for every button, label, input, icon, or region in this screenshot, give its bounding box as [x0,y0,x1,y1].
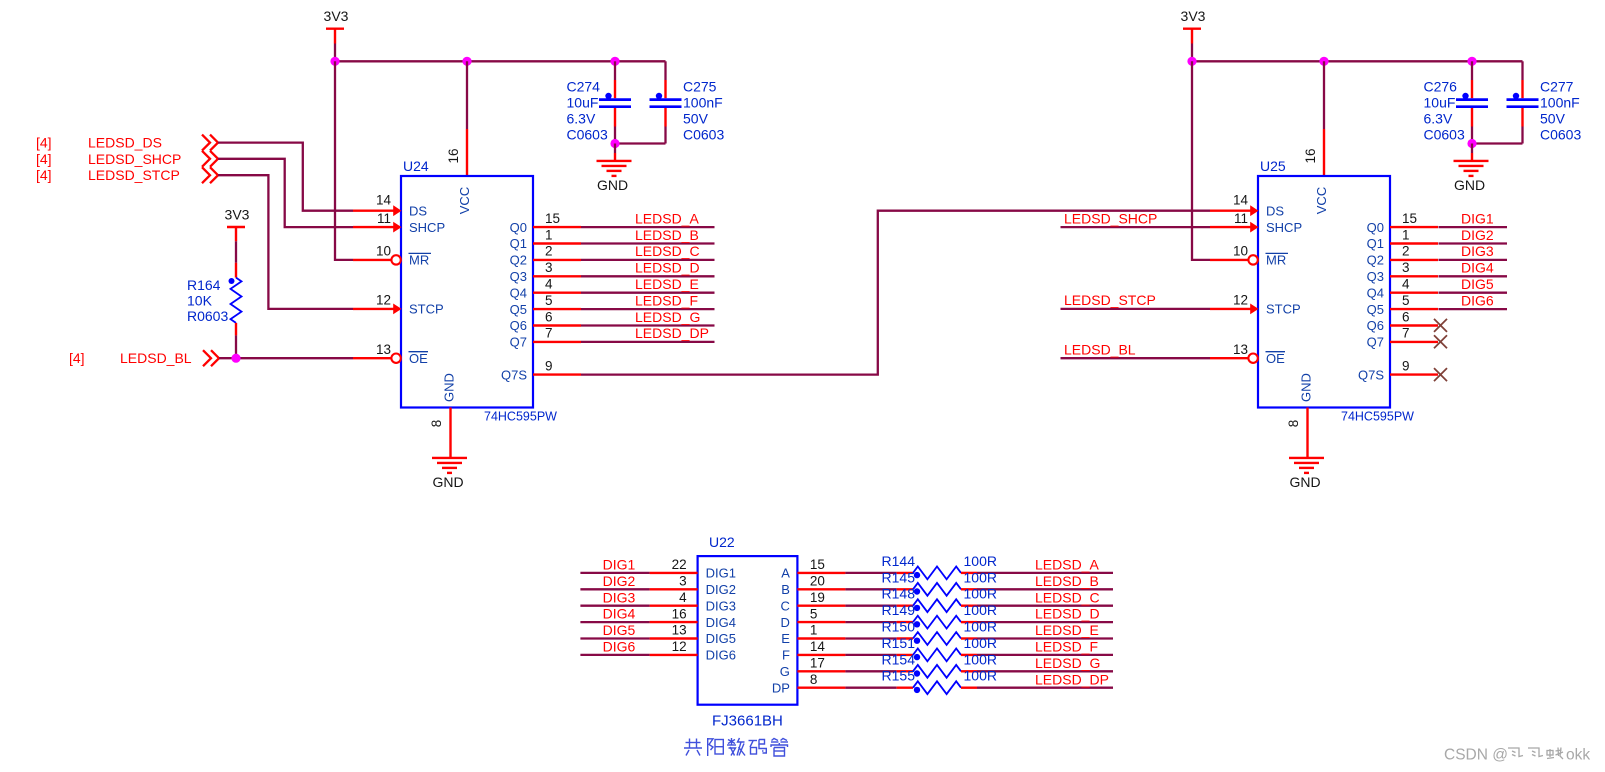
svg-text:R149: R149 [882,602,916,618]
ground GND below C274/C275 [597,161,632,193]
svg-text:1: 1 [545,227,553,242]
svg-text:MR: MR [1266,253,1286,268]
svg-text:C0603: C0603 [567,127,608,143]
pin 10 MR (active low) of U24 [353,244,431,268]
IC U22 FJ3661BH body [698,534,798,730]
svg-text:DIG4: DIG4 [1461,260,1494,276]
pin 15 Q0 of U25 [1367,211,1438,235]
wire LEDSD_STCP to U24 [218,175,353,309]
svg-text:LEDSD_SHCP: LEDSD_SHCP [1064,210,1157,226]
svg-text:SHCP: SHCP [1266,220,1302,235]
power symbol 3V3 above U25 [1181,8,1206,61]
svg-text:8: 8 [429,420,444,428]
svg-text:LEDSD_STCP: LEDSD_STCP [88,167,180,183]
svg-text:DIG2: DIG2 [1461,227,1494,243]
svg-text:10: 10 [376,244,391,259]
svg-text:74HC595PW: 74HC595PW [484,410,557,424]
svg-text:9: 9 [545,358,553,373]
pin 15 segment A of U22 [781,557,845,581]
pin 6 Q6 of U25 [1367,309,1438,333]
wire bottom of C277 to bottom of C276 [1472,142,1523,144]
svg-text:DIG5: DIG5 [706,631,736,646]
junction [1467,57,1476,66]
svg-text:Q2: Q2 [1367,253,1384,268]
wire LEDSD_SHCP to U24 [218,159,353,227]
pin 8 GND of U24 [429,408,451,458]
pin 4 Q4 of U24 [510,277,581,301]
pin 7 Q7 of U24 [510,326,581,350]
svg-text:100R: 100R [964,635,997,651]
ground GND below U25 [1289,458,1324,490]
wire bottom of C275 to bottom of C274 [615,142,666,144]
svg-text:1: 1 [810,623,818,638]
resistor R144 100R [882,553,997,579]
svg-text:19: 19 [810,590,825,605]
wire net DIG2 to U22 [580,573,649,589]
wire U22 F to R151 [845,654,896,656]
svg-text:7: 7 [1402,326,1410,341]
wire U22 C to R148 [845,605,896,607]
svg-text:Q5: Q5 [1367,302,1384,317]
svg-text:11: 11 [1234,211,1248,226]
svg-text:3V3: 3V3 [1181,8,1206,24]
svg-text:A: A [781,566,790,581]
svg-text:C277: C277 [1540,79,1574,95]
wire U22 E to R150 [845,637,896,639]
svg-text:LEDSD_F: LEDSD_F [635,292,698,308]
svg-text:LEDSD_G: LEDSD_G [1035,655,1100,671]
port LEDSD_STCP (sheet entry) [36,167,218,183]
wire net LEDSD_C from U24 Q2 [581,243,715,260]
svg-text:LEDSD_B: LEDSD_B [1035,573,1099,589]
pin 20 segment B of U22 [781,574,845,598]
pin 13 OE (active low) of U24 [353,342,428,366]
svg-text:LEDSD_SHCP: LEDSD_SHCP [88,151,181,167]
svg-text:50V: 50V [683,111,709,127]
svg-text:Q3: Q3 [1367,269,1384,284]
ground GND below U24 [432,458,467,490]
svg-text:2: 2 [1402,244,1410,259]
pin 2 Q2 of U24 [510,244,581,268]
svg-text:3: 3 [545,260,553,275]
svg-text:6.3V: 6.3V [567,111,596,127]
svg-text:D: D [781,615,790,630]
wire R164 to LEDSD_BL net [235,335,237,358]
svg-text:12: 12 [672,639,687,654]
svg-text:R145: R145 [882,569,916,585]
junction [610,139,619,148]
svg-text:LEDSD_DP: LEDSD_DP [1035,671,1109,687]
svg-text:R150: R150 [882,619,916,635]
resistor R149 100R [882,602,997,628]
svg-text:OE: OE [1266,351,1285,366]
svg-text:C0603: C0603 [1540,127,1581,143]
wire U22 D to R149 [845,621,896,623]
svg-text:7: 7 [545,326,553,341]
svg-text:10uF: 10uF [1424,95,1456,111]
svg-text:100nF: 100nF [1540,95,1580,111]
pin 14 DS of U25 [1210,193,1284,219]
svg-text:STCP: STCP [1266,302,1301,317]
svg-text:5: 5 [810,606,818,621]
svg-text:DIG4: DIG4 [603,606,636,622]
svg-text:OE: OE [409,351,428,366]
svg-text:DIG6: DIG6 [603,639,636,655]
svg-text:DIG3: DIG3 [603,589,636,605]
pin 9 Q7S of U24 [501,358,581,382]
svg-text:14: 14 [376,193,392,208]
svg-text:R0603: R0603 [187,308,228,324]
wire net LEDSD_STCP to U25 [1061,292,1211,309]
svg-text:LEDSD_C: LEDSD_C [635,243,700,259]
svg-text:100R: 100R [964,569,997,585]
svg-text:14: 14 [810,639,826,654]
port LEDSD_SHCP (sheet entry) [36,151,218,167]
svg-text:R164: R164 [187,277,221,293]
svg-text:[4]: [4] [36,135,52,151]
svg-text:100R: 100R [964,651,997,667]
svg-text:15: 15 [1402,211,1417,226]
wire net DIG5 from U25 Q4 [1439,276,1508,293]
svg-text:50V: 50V [1540,111,1566,127]
pin 14 DS of U24 [353,193,427,219]
wire 3V3 to R164 [235,241,237,262]
svg-text:Q3: Q3 [510,269,527,284]
wire net DIG6 from U25 Q5 [1439,292,1508,309]
wire 3V3 rail to decoupling caps of U24 [335,60,666,62]
pin 15 Q0 of U24 [510,211,581,235]
svg-text:Q0: Q0 [1367,220,1384,235]
svg-text:C274: C274 [567,79,601,95]
svg-text:G: G [780,664,790,679]
pin 19 segment C of U22 [781,590,846,614]
junction [231,354,240,363]
pin 11 SHCP of U25 [1210,211,1302,235]
svg-text:16: 16 [446,148,461,163]
svg-text:16: 16 [1303,148,1318,163]
svg-text:DP: DP [772,680,790,695]
svg-text:Q6: Q6 [1367,318,1384,333]
svg-text:6: 6 [1402,309,1410,324]
pin 1 Q1 of U25 [1367,227,1438,251]
svg-text:R151: R151 [882,635,916,651]
svg-text:10K: 10K [187,293,213,309]
svg-text:LEDSD_F: LEDSD_F [1035,639,1098,655]
junction [1467,139,1476,148]
svg-text:2: 2 [545,244,553,259]
svg-text:Q7S: Q7S [501,367,527,382]
pin 12 DIG6 of U22 [650,639,736,663]
wire net DIG3 to U22 [580,589,649,605]
pin 17 segment G of U22 [780,656,846,680]
wire net DIG4 to U22 [580,606,649,622]
svg-text:LEDSD_STCP: LEDSD_STCP [1064,292,1156,308]
wire LEDSD_BL to OE pin of U24 [219,357,353,359]
wire net DIG1 to U22 [580,557,649,573]
svg-text:10uF: 10uF [567,95,599,111]
svg-text:F: F [782,648,790,663]
pin 3 DIG2 of U22 [650,574,736,598]
svg-text:3: 3 [1402,260,1410,275]
svg-text:4: 4 [679,590,687,605]
pin 1 Q1 of U24 [510,227,581,251]
pin 11 SHCP of U24 [353,211,445,235]
svg-text:GND: GND [597,177,628,193]
pin 22 DIG1 of U22 [650,557,736,581]
junction [330,57,339,66]
no-connect cross [1434,319,1447,332]
svg-text:5: 5 [545,293,553,308]
svg-text:8: 8 [1286,420,1301,428]
pin 6 Q6 of U24 [510,309,581,333]
svg-text:DIG4: DIG4 [706,615,736,630]
svg-text:LEDSD_E: LEDSD_E [635,276,699,292]
svg-text:13: 13 [376,342,391,357]
svg-text:GND: GND [1454,177,1485,193]
svg-text:15: 15 [810,557,825,572]
svg-text:Q7: Q7 [1367,335,1384,350]
capacitor C274 10uF [567,61,632,143]
svg-text:20: 20 [810,574,825,589]
pin 14 segment F of U22 [782,639,845,663]
svg-text:22: 22 [672,557,687,572]
wire cap bottoms to ground [614,144,616,154]
wire net LEDSD_SHCP to U25 [1061,210,1211,227]
svg-text:6.3V: 6.3V [1424,111,1453,127]
wire 3V3 rail to decoupling caps of U25 [1192,60,1523,62]
wire U22 A to R144 [845,572,896,574]
svg-text:LEDSD_A: LEDSD_A [635,210,699,226]
wire net LEDSD_E from R150 [977,622,1113,638]
wire net DIG3 from U25 Q2 [1439,243,1508,260]
svg-text:LEDSD_BL: LEDSD_BL [120,350,192,366]
svg-text:9: 9 [1402,358,1410,373]
svg-text:DIG6: DIG6 [1461,292,1494,308]
svg-text:13: 13 [672,623,687,638]
svg-text:LEDSD_DS: LEDSD_DS [88,135,162,151]
pin 12 STCP of U24 [353,293,444,317]
svg-text:[4]: [4] [69,350,85,366]
wire net LEDSD_F from R151 [977,639,1113,655]
svg-text:C: C [781,598,790,613]
pin 12 STCP of U25 [1210,293,1301,317]
svg-text:GND: GND [432,474,463,490]
pin 5 segment D of U22 [781,606,846,630]
wire net DIG5 to U22 [580,622,649,638]
IC U25 74HC595PW body [1258,158,1414,424]
capacitor C277 100nF [1507,61,1582,143]
resistor R148 100R [882,586,997,612]
pin 13 DIG5 of U22 [650,623,736,647]
svg-text:STCP: STCP [409,302,444,317]
svg-text:74HC595PW: 74HC595PW [1341,410,1414,424]
svg-text:DIG5: DIG5 [603,622,636,638]
port LEDSD_DS (sheet entry) [36,135,218,151]
svg-text:C0603: C0603 [683,127,724,143]
svg-text:12: 12 [376,293,391,308]
no-connect cross [1434,335,1447,348]
pin 9 Q7S of U25 [1358,358,1438,382]
pin 4 DIG3 of U22 [650,590,736,614]
svg-text:4: 4 [1402,277,1410,292]
wire U22 DP to R155 [845,687,896,689]
svg-text:R148: R148 [882,586,916,602]
wire net LEDSD_B from R145 [977,573,1113,589]
svg-text:E: E [781,631,790,646]
svg-text:R155: R155 [882,668,916,684]
no-connect cross [1434,368,1447,381]
IC U24 74HC595PW body [401,158,557,424]
wire 3V3 rail to VCC pin 16 of U24 [466,61,468,129]
pin 3 Q3 of U25 [1367,260,1438,284]
wire net LEDSD_D from U24 Q3 [581,260,715,277]
wire net LEDSD_G from U24 Q6 [581,309,715,326]
svg-text:okk: okk [1566,747,1590,764]
svg-text:VCC: VCC [457,187,472,214]
wire net LEDSD_E from U24 Q4 [581,276,715,293]
wire net LEDSD_D from R149 [977,606,1113,622]
svg-text:C276: C276 [1424,79,1458,95]
svg-text:3V3: 3V3 [225,207,250,223]
svg-text:U24: U24 [403,158,429,174]
wire U24 Q7S to U25 DS [581,211,1210,375]
pin 13 OE (active low) of U25 [1210,342,1285,366]
svg-text:[4]: [4] [36,151,52,167]
wire net DIG6 to U22 [580,639,649,655]
svg-text:3V3: 3V3 [324,8,349,24]
junction [1319,57,1328,66]
watermark CSDN @飞飞蛾okk [1444,747,1590,764]
pin 16 VCC of U24 [446,129,467,176]
svg-text:MR: MR [409,253,429,268]
svg-text:U25: U25 [1260,158,1286,174]
svg-text:100R: 100R [964,668,997,684]
title text 共阳数码管 (common-anode digit display) [684,738,788,756]
svg-text:Q5: Q5 [510,302,527,317]
svg-text:DIG1: DIG1 [603,557,636,573]
resistor R164 10K [187,263,242,336]
svg-text:8: 8 [810,672,818,687]
capacitor C276 10uF [1424,61,1489,143]
svg-text:Q1: Q1 [510,236,527,251]
wire net LEDSD_G from R154 [977,655,1113,671]
wire net LEDSD_A from R144 [977,557,1113,573]
wire LEDSD_DS to U24 [218,143,353,211]
wire net LEDSD_A from U24 Q0 [581,210,715,227]
pin 10 MR (active low) of U25 [1210,244,1288,268]
svg-text:DIG3: DIG3 [1461,243,1494,259]
svg-text:Q6: Q6 [510,318,527,333]
svg-text:3: 3 [679,574,687,589]
svg-text:LEDSD_C: LEDSD_C [1035,589,1100,605]
svg-text:14: 14 [1233,193,1249,208]
port LEDSD_BL (sheet entry) [69,350,219,366]
svg-text:C0603: C0603 [1424,127,1465,143]
svg-text:LEDSD_B: LEDSD_B [635,227,699,243]
pin 16 VCC of U25 [1303,129,1324,176]
svg-text:GND: GND [1299,373,1314,402]
svg-text:DIG1: DIG1 [1461,210,1494,226]
svg-text:DS: DS [1266,203,1284,218]
wire cap bottoms to ground [1471,144,1473,154]
svg-text:DIG1: DIG1 [706,566,736,581]
svg-text:Q7: Q7 [510,335,527,350]
svg-text:17: 17 [810,656,825,671]
svg-text:SHCP: SHCP [409,220,445,235]
pin 5 Q5 of U24 [510,293,581,317]
wire net LEDSD_DP from R155 [977,671,1113,687]
svg-text:U22: U22 [709,534,735,550]
svg-text:100nF: 100nF [683,95,723,111]
junction [610,57,619,66]
wire net LEDSD_DP from U24 Q7 [581,325,715,342]
ground GND below C276/C277 [1454,161,1489,193]
svg-text:LEDSD_BL: LEDSD_BL [1064,342,1136,358]
wire net DIG2 from U25 Q1 [1439,227,1508,244]
svg-text:LEDSD_DP: LEDSD_DP [635,325,709,341]
svg-text:DIG2: DIG2 [706,582,736,597]
junction [1187,57,1196,66]
svg-text:DIG6: DIG6 [706,648,736,663]
svg-text:LEDSD_A: LEDSD_A [1035,557,1099,573]
wire net LEDSD_BL to U25 [1061,342,1211,359]
resistor R155 100R [882,668,997,694]
pin 2 Q2 of U25 [1367,244,1438,268]
pin 3 Q3 of U24 [510,260,581,284]
svg-text:11: 11 [377,211,391,226]
svg-text:LEDSD_D: LEDSD_D [1035,606,1100,622]
pin 8 segment DP of U22 [772,672,846,696]
pin 8 GND of U25 [1286,408,1308,458]
svg-text:DIG5: DIG5 [1461,276,1494,292]
svg-text:6: 6 [545,309,553,324]
svg-text:5: 5 [1402,293,1410,308]
power symbol 3V3 above R164 [225,207,250,242]
pin 1 segment E of U22 [781,623,845,647]
pin 5 Q5 of U25 [1367,293,1438,317]
svg-text:R154: R154 [882,651,916,667]
svg-text:10: 10 [1233,244,1248,259]
svg-text:Q1: Q1 [1367,236,1384,251]
svg-text:100R: 100R [964,602,997,618]
svg-text:DIG3: DIG3 [706,598,736,613]
svg-text:13: 13 [1233,342,1248,357]
svg-text:GND: GND [442,373,457,402]
wire net DIG4 from U25 Q3 [1439,260,1508,277]
svg-text:100R: 100R [964,586,997,602]
resistor R150 100R [882,619,997,645]
svg-text:1: 1 [1402,227,1410,242]
wire net DIG1 from U25 Q0 [1439,210,1508,227]
svg-text:100R: 100R [964,553,997,569]
svg-text:B: B [781,582,790,597]
svg-text:Q4: Q4 [510,285,527,300]
wire 3V3 rail to MR pin of U24 [335,61,353,260]
wire 3V3 rail to VCC pin 16 of U25 [1323,61,1325,129]
svg-text:C275: C275 [683,79,717,95]
svg-text:FJ3661BH: FJ3661BH [712,713,783,730]
pin 4 Q4 of U25 [1367,277,1438,301]
wire U22 G to R154 [845,670,896,672]
svg-text:CSDN @: CSDN @ [1444,747,1508,764]
resistor R151 100R [882,635,997,661]
svg-text:Q0: Q0 [510,220,527,235]
svg-text:12: 12 [1233,293,1248,308]
svg-text:VCC: VCC [1314,187,1329,214]
svg-text:Q2: Q2 [510,253,527,268]
svg-text:LEDSD_D: LEDSD_D [635,260,700,276]
svg-text:GND: GND [1289,474,1320,490]
